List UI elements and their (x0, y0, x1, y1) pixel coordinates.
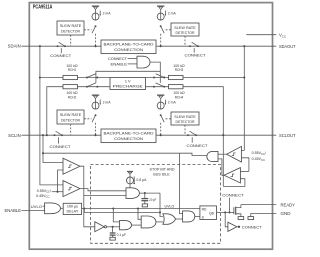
node timer/connect junction (159, 211, 161, 213)
wire drop to AND B input (138, 209, 141, 220)
wire A3 reference stub (241, 158, 249, 172)
node RCH1 junction (39, 76, 41, 78)
wire SCLOUT (156, 134, 276, 136)
IC border PCA9511A (29, 3, 272, 250)
gate U10 AND B (141, 216, 156, 228)
switch CONNECT (SCLOUT) (187, 131, 197, 136)
inverter U8 (95, 222, 107, 232)
switch precharge left row1 (86, 74, 98, 79)
svg-text:CONNECT: CONNECT (222, 194, 244, 198)
svg-text:ENABLE: ENABLE (111, 62, 128, 66)
wire comparator A1 output to inverter (80, 166, 95, 227)
node delay branch (83, 207, 85, 209)
wire reference stub with label (52, 191, 63, 193)
svg-text:DETECTOR: DETECTOR (61, 30, 80, 34)
wire drop to idle AND gate (180, 153, 183, 213)
svg-text:SLEW RATE: SLEW RATE (174, 26, 196, 30)
wire GND (251, 214, 276, 217)
power VCC bar (SDAIN current source) (92, 6, 99, 13)
ground (0.1 uF) (110, 237, 115, 240)
wire RCH4 row (146, 86, 169, 88)
pin VCC (246, 34, 276, 36)
wire SCLIN to backplane box (22, 134, 102, 136)
wire ENABLE input (22, 209, 45, 211)
node SCL sense junction (42, 134, 44, 136)
current source I3 2 mA (SCLIN) (92, 100, 101, 110)
gate U11 OR (163, 214, 176, 225)
svg-text:SLEW RATE: SLEW RATE (60, 113, 82, 117)
svg-text:CONNECT: CONNECT (242, 225, 263, 229)
svg-text:100 μs: 100 μs (67, 205, 78, 209)
switch current source (SDAOUT) (160, 25, 164, 46)
wire A4 output to right AND (218, 159, 224, 175)
svg-text:SDAIN: SDAIN (8, 44, 21, 49)
switch CONNECT (SDAOUT) (189, 42, 199, 47)
svg-text:UVLO: UVLO (165, 204, 175, 208)
current source I5 0.8 uA (127, 176, 136, 184)
ground (20 pF) (142, 204, 147, 207)
capacitor C1 20 pF (141, 193, 148, 204)
svg-text:READY: READY (281, 202, 296, 207)
comparator A3 (SDAOUT) (227, 146, 242, 162)
wire dashed control to current switch (SCLIN) (84, 118, 92, 120)
power VCC bar (SCLIN current source) (92, 95, 99, 102)
wire connect-enable branch to left precharge switches (96, 71, 160, 74)
wire long branch to right AND gate (43, 153, 207, 155)
gate U7 AND enable (45, 203, 61, 214)
gate U9 AND A (120, 220, 132, 229)
resistor RCH3 100 k (169, 75, 184, 79)
switch precharge right row2 (153, 74, 165, 88)
svg-text:STOP BIT AND: STOP BIT AND (150, 168, 175, 172)
comparator A1 (SCLIN) (63, 158, 80, 174)
wire SDAOUT rail vertical (243, 46, 245, 150)
power VCC bar (0.8 uA source) (127, 171, 133, 177)
node gate A drop (112, 207, 114, 209)
switch CONNECT (SCLIN) (54, 131, 63, 136)
svg-text:DELAY: DELAY (66, 210, 78, 214)
block backplane-to-card connection (SDA) (101, 40, 156, 54)
svg-text:BACKPLANE-TO-CARD: BACKPLANE-TO-CARD (104, 42, 154, 46)
current source I4 2 mA (SCLOUT) (157, 100, 166, 110)
svg-text:BUS IDLE: BUS IDLE (153, 173, 170, 177)
wire to connect buffer (225, 212, 228, 226)
svg-text:RCH1: RCH1 (68, 68, 77, 72)
wire RCH3 to SDAOUT rail (183, 77, 244, 79)
wire dashed sense drop (SCLIN) (70, 124, 72, 135)
wire delay output to flip-flop RD (82, 208, 200, 210)
node stop-logic branch (42, 152, 44, 154)
wire A4 reference input (240, 170, 249, 172)
svg-text:VCC: VCC (279, 33, 287, 39)
svg-text:CONNECT: CONNECT (50, 145, 72, 149)
svg-text:RD: RD (202, 207, 207, 211)
node filter cap tap (112, 226, 114, 228)
flip-flop U13 (200, 206, 217, 220)
wire enable gate to delay (60, 207, 63, 209)
gate U6 AND bus idle (126, 188, 139, 199)
resistor RCH1 100 k (63, 75, 78, 79)
node 20 pF tap (144, 192, 146, 194)
wire branch to connect latch line (84, 209, 160, 213)
svg-text:2 mA: 2 mA (168, 101, 177, 105)
wire riser to CONNECT label (228, 198, 230, 213)
wire AND B output to OR (156, 221, 163, 223)
svg-text:20 pF: 20 pF (149, 198, 156, 202)
wire inverter output (107, 226, 120, 228)
wire comparator A2 output to idle gate input 1 (80, 189, 126, 191)
wire dashed control to current switch (SDAOUT) (166, 29, 171, 31)
wire dashed control to current switch (SDAIN) (84, 29, 92, 31)
block 100 us delay (63, 203, 81, 214)
dashed box stop bit and bus idle (91, 165, 221, 244)
node connect label riser (228, 211, 230, 213)
svg-text:BACKPLANE-TO-CARD: BACKPLANE-TO-CARD (104, 131, 154, 135)
wire AND C output to flip-flop S (195, 215, 200, 217)
svg-text:RCH3: RCH3 (175, 68, 184, 72)
svg-text:GND: GND (281, 211, 291, 216)
node RCH3 junction (243, 76, 245, 78)
power VCC bar (SDAOUT current source) (157, 6, 164, 13)
svg-text:1 V: 1 V (125, 80, 131, 84)
slew rate detector U4 (SCLIN) (57, 110, 84, 124)
wire dashed sense drop (SCLOUT) (184, 125, 186, 135)
resistor RCH4 100 k (169, 85, 184, 89)
node connect buffer tap (224, 211, 226, 213)
svg-text:SLEW RATE: SLEW RATE (174, 115, 196, 119)
svg-text:SCLOUT: SCLOUT (279, 133, 296, 138)
wire RCH1 row (40, 77, 63, 79)
svg-text:RCH4: RCH4 (175, 95, 184, 99)
node SCLOUT current source tap (160, 134, 162, 136)
svg-text:SDAOUT: SDAOUT (279, 44, 296, 49)
wire RCH2 to switch (78, 86, 111, 88)
wire A3 input from SDAOUT rail (241, 149, 244, 151)
wire READY (241, 204, 276, 206)
wire reference link (58, 170, 64, 192)
wire connect-enable output (150, 62, 160, 74)
node SDAOUT rail junction (243, 45, 245, 47)
wire RCH3 row (146, 77, 169, 79)
node SCLOUT rail junction (222, 134, 224, 136)
switch precharge left row2 (86, 74, 98, 88)
capacitor C2 0.1 uF (110, 227, 116, 238)
mosfet Q1 ready driver (234, 205, 241, 217)
svg-text:PCA9511A: PCA9511A (33, 4, 53, 10)
svg-text:0.1 μF: 0.1 μF (117, 233, 127, 237)
node SDAIN sense junction (39, 45, 41, 47)
switch CONNECT (SDAIN) (57, 42, 66, 47)
wire SDA sense vertical (40, 46, 63, 185)
svg-text:0.8 μA: 0.8 μA (136, 178, 147, 182)
gate U12 AND C (183, 211, 195, 222)
wire RCH2 row (47, 87, 63, 136)
svg-text:CONNECT: CONNECT (50, 54, 72, 58)
block 1V precharge (110, 78, 146, 90)
node RCH2 junction (46, 134, 48, 136)
wire SDAIN to backplane box (22, 45, 102, 47)
svg-text:2 mA: 2 mA (168, 12, 177, 16)
svg-text:SLEW RATE: SLEW RATE (60, 24, 82, 28)
wire RCH1 to switch (78, 77, 111, 79)
wire RCH4 to SCLOUT rail (183, 87, 223, 187)
node gate B drop (137, 207, 139, 209)
svg-text:RCH2: RCH2 (68, 95, 77, 99)
comparator A4 (SCLOUT) (224, 168, 240, 183)
wire QB output to mosfet gate (217, 211, 234, 213)
block backplane-to-card connection (SCL) (101, 129, 156, 143)
switch precharge right row1 (153, 74, 165, 79)
svg-text:CONNECTION: CONNECTION (114, 48, 143, 52)
svg-text:CONNECTION: CONNECTION (114, 137, 143, 141)
comparator A2 (SDAIN) (63, 181, 80, 197)
wire OR output (176, 218, 183, 220)
wire A3 output to right AND (218, 153, 227, 155)
svg-text:SCLIN: SCLIN (8, 133, 21, 138)
resistor RCH2 100 k (63, 85, 78, 89)
svg-text:QB: QB (209, 211, 215, 215)
node SDAOUT current source tap (160, 45, 162, 47)
wire source to idle gate (129, 184, 131, 188)
gate U14 AND (left facing) (207, 151, 218, 161)
current source I2 2 mA (SDAOUT) (157, 11, 166, 21)
wire SDAOUT (156, 45, 276, 47)
svg-text:UVLO: UVLO (31, 205, 42, 209)
wire UVLO stub (43, 205, 45, 207)
wire drop to AND A input (113, 209, 119, 222)
wire branch comparator A1 to idle gate input 2 (84, 194, 126, 196)
wire dashed control to current switch (SCLOUT) (166, 118, 171, 120)
svg-text:DETECTOR: DETECTOR (176, 31, 195, 35)
slew rate detector U1 (SDAIN) (57, 21, 84, 35)
svg-text:PRECHARGE: PRECHARGE (113, 85, 144, 89)
wire dashed sense drop (SDAIN) (70, 35, 72, 46)
power VCC bar (SCLOUT current source) (157, 95, 164, 102)
wire SCL sense vertical (43, 135, 63, 162)
switch current source (SCLOUT) (160, 114, 164, 135)
buffer U15 connect driver (228, 222, 240, 231)
svg-text:CONNECT: CONNECT (187, 144, 209, 148)
slew rate detector U5 (SCLOUT) (171, 112, 199, 125)
switch current source (SCLIN) (92, 114, 97, 136)
ground (GND pin) (248, 217, 254, 220)
wire dashed sense drop (SDAOUT) (184, 36, 186, 46)
svg-text:2 mA: 2 mA (103, 101, 112, 105)
ground (mosfet source) (238, 217, 244, 220)
svg-text:ENABLE: ENABLE (5, 208, 22, 213)
switch current source (SDAIN) (92, 25, 97, 47)
svg-text:DETECTOR: DETECTOR (61, 119, 80, 123)
current source I1 2 mA (SDAIN) (92, 11, 101, 21)
svg-text:DETECTOR: DETECTOR (176, 120, 195, 124)
wire idle gate output (139, 192, 160, 194)
wire idle output down to OR (160, 193, 163, 216)
svg-text:CONNECT: CONNECT (108, 57, 128, 61)
wire AND A output (131, 224, 141, 226)
svg-text:2 mA: 2 mA (103, 12, 112, 16)
slew rate detector U2 (SDAOUT) (171, 23, 199, 36)
svg-text:CONNECT: CONNECT (185, 53, 207, 57)
wire A4 input from SCLOUT rail (223, 179, 245, 187)
